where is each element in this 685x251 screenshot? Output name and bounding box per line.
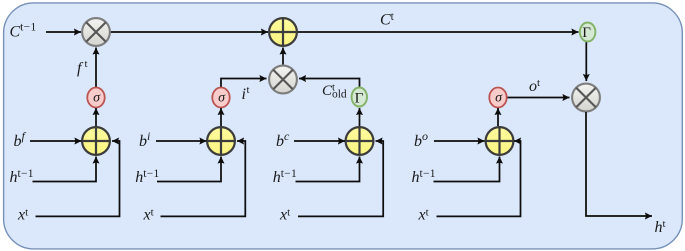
- wire M3 to output h t: [586, 112, 652, 216]
- wire h to plus-o: [434, 157, 500, 182]
- sigma node S-i: [212, 88, 229, 108]
- wire h to plus-c: [296, 157, 360, 182]
- sigma node S-o: [489, 88, 506, 108]
- wire x to plus-f: [36, 141, 120, 216]
- wire plus-c to Gamma-c: [359, 108, 361, 126]
- wire C t-1 to multiply M1: [46, 31, 81, 33]
- wire plus-f to sigma-f: [95, 108, 97, 126]
- wire Gamma-c to M2: [299, 79, 360, 88]
- wire b-c to plus-c: [294, 140, 345, 142]
- wire b-i to plus-i: [156, 140, 207, 142]
- svg-text:σ: σ: [93, 90, 101, 105]
- wire sigma-o to M3: [506, 97, 570, 99]
- multiply node M2 (middle): [269, 66, 297, 94]
- svg-text:Γ: Γ: [355, 90, 364, 106]
- multiply node M3 (right): [572, 84, 600, 112]
- svg-text:σ: σ: [218, 90, 226, 105]
- wire h to plus-i: [157, 157, 221, 182]
- Gamma node G-c: [352, 88, 367, 107]
- wire Gamma-right to M3: [585, 42, 587, 81]
- plus node P-o: [486, 127, 514, 155]
- wire h to plus-f: [33, 157, 97, 182]
- wire x to plus-o: [437, 141, 521, 216]
- wire sigma-f to M1: [95, 48, 97, 88]
- wire x to plus-i: [161, 141, 246, 216]
- wire M2 to P-top: [282, 48, 284, 65]
- wire b-o to plus-o: [434, 140, 485, 142]
- wire sigma-i to M2: [221, 79, 267, 88]
- svg-text:Γ: Γ: [582, 25, 591, 41]
- multiply node M1: [82, 18, 110, 46]
- wire plus-i to sigma-i: [220, 108, 222, 126]
- wire x to plus-c: [298, 141, 383, 216]
- plus node P-top: [269, 18, 297, 46]
- wire b-f to plus-f: [30, 140, 82, 142]
- wire M1 to plus P-top: [108, 31, 268, 33]
- plus node P-f: [82, 127, 110, 155]
- sigma node S-f: [87, 88, 104, 108]
- plus node P-c: [346, 127, 374, 155]
- wire P-top to Gamma-right, node C t label: [295, 31, 579, 33]
- svg-text:σ: σ: [495, 90, 503, 105]
- wire plus-o to sigma-o: [497, 108, 499, 126]
- plus node P-i: [207, 127, 235, 155]
- Gamma node G-right: [580, 23, 596, 42]
